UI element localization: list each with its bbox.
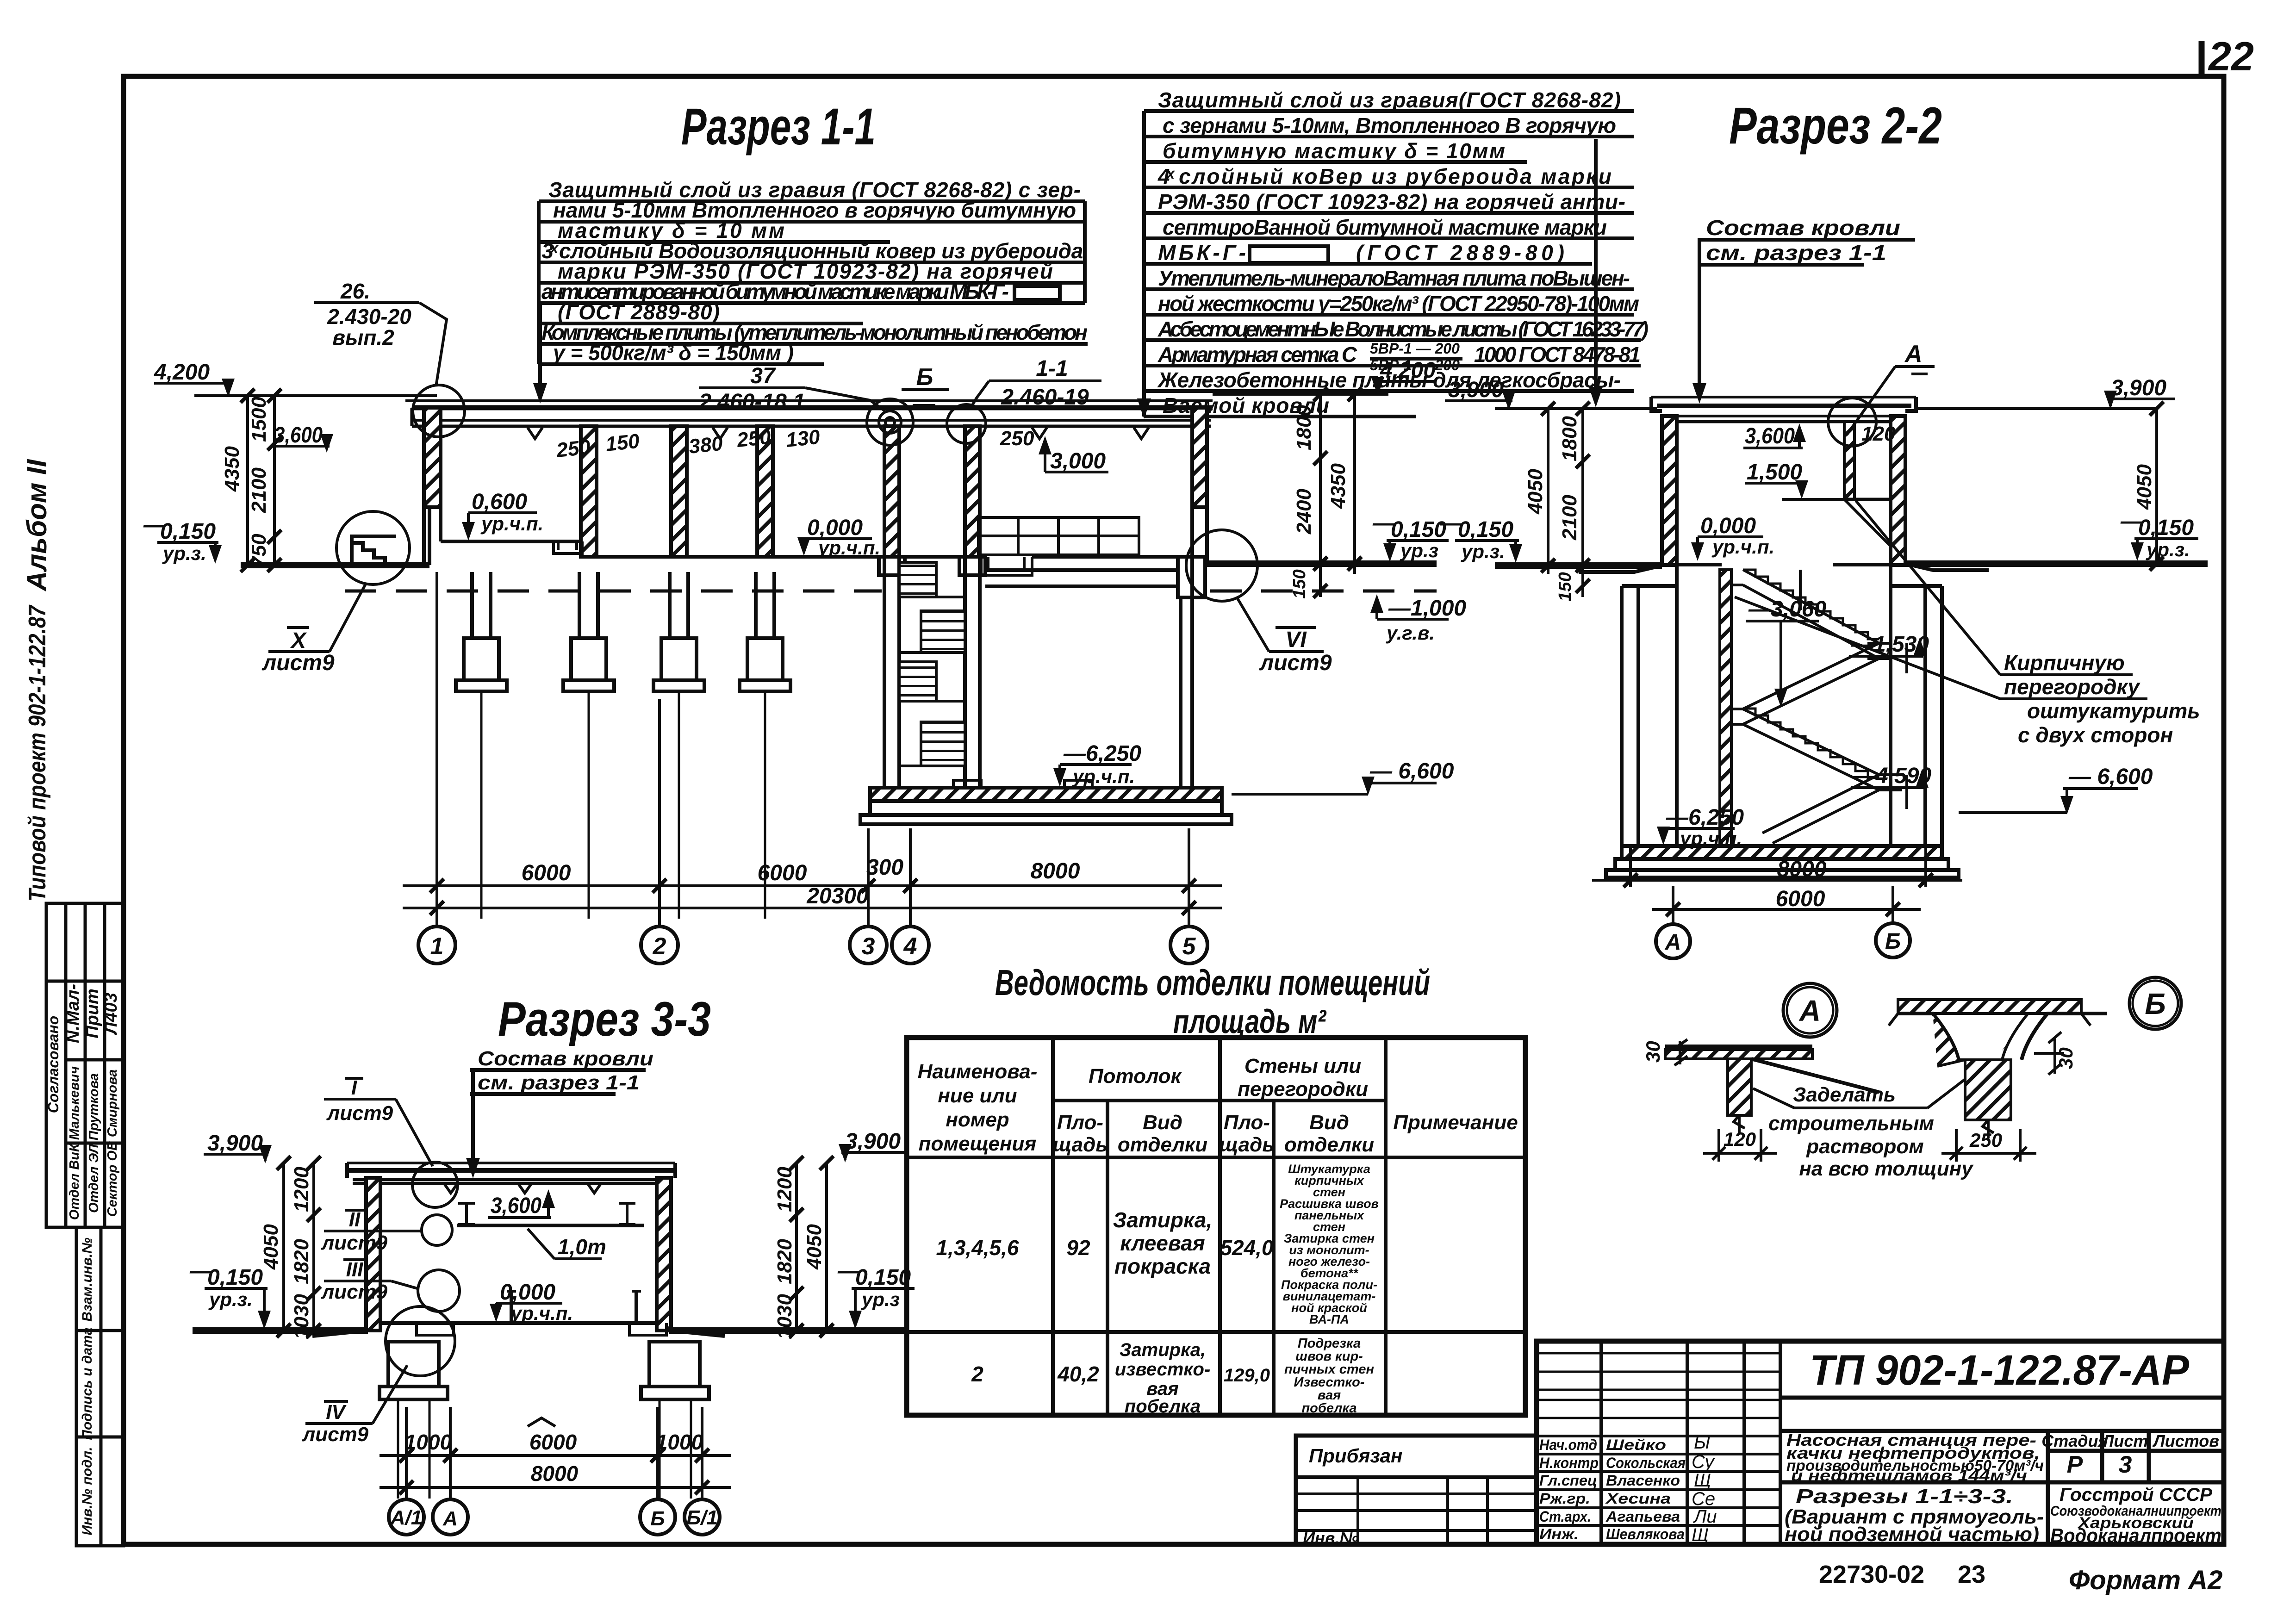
callout A — [1904, 341, 1923, 367]
svg-text:1030: 1030 — [290, 1294, 313, 1339]
pit foundation — [860, 780, 1232, 824]
svg-text:лист9: лист9 — [302, 1423, 369, 1446]
section 3-3 drawing — [193, 1162, 905, 1499]
svg-text:Ли: Ли — [1692, 1506, 1717, 1527]
svg-text:Рж.гр.: Рж.гр. — [1539, 1490, 1590, 1507]
svg-text:2: 2 — [653, 933, 666, 960]
svg-text:Л403: Л403 — [101, 993, 121, 1036]
svg-text:Власенко: Власенко — [1606, 1472, 1680, 1489]
detail circle X at entrance — [336, 511, 410, 585]
svg-text:2.460-18.1: 2.460-18.1 — [698, 390, 805, 414]
svg-text:1500: 1500 — [248, 397, 270, 442]
bottom margin texts — [1819, 1561, 2222, 1595]
svg-text:1030: 1030 — [773, 1294, 796, 1339]
level 3,900 right 3-3 — [845, 1129, 901, 1154]
svg-text:37: 37 — [750, 364, 776, 388]
svg-text:Б: Б — [2145, 987, 2165, 1020]
callout VI / лист9 — [1259, 628, 1332, 675]
svg-text:Ст.арх.: Ст.арх. — [1539, 1508, 1591, 1525]
left dim chain 2-2 — [1541, 402, 1590, 597]
svg-text:побелка: побелка — [1301, 1401, 1356, 1416]
pit outer walls — [1622, 565, 1942, 846]
svg-text:А: А — [442, 1507, 458, 1530]
table title — [995, 962, 1430, 1040]
svg-text:1200: 1200 — [773, 1167, 796, 1212]
svg-text:0,000: 0,000 — [1700, 514, 1756, 538]
svg-text:РЭМ-350 (ГОСТ 10923-82) на гор: РЭМ-350 (ГОСТ 10923-82) на горячей анти- — [1158, 190, 1625, 214]
svg-text:23: 23 — [1958, 1561, 1985, 1588]
svg-text:6000: 6000 — [1776, 887, 1825, 911]
detail circle B on roof — [867, 399, 913, 445]
level 4,200 right — [1380, 358, 1436, 383]
svg-text:2100: 2100 — [248, 467, 270, 513]
svg-text:Хесина: Хесина — [1605, 1490, 1671, 1507]
level 3,600 — [274, 423, 323, 448]
svg-text:5ВР-1 — 200: 5ВР-1 — 200 — [1370, 340, 1460, 357]
svg-text:Прибязан: Прибязан — [1309, 1445, 1402, 1467]
level -0,150 left — [143, 513, 216, 544]
svg-text:Сокольская: Сокольская — [1606, 1455, 1686, 1471]
120 label — [1861, 423, 1896, 445]
svg-text:0,000: 0,000 — [500, 1280, 555, 1305]
svg-text:0,150: 0,150 — [855, 1265, 911, 1290]
svg-text:3,600: 3,600 — [491, 1194, 541, 1218]
svg-text:120: 120 — [1861, 423, 1896, 445]
svg-text:Агапьева: Агапьева — [1605, 1508, 1680, 1525]
grid bubbles 3-3 — [389, 1499, 720, 1535]
svg-text:клеевая: клеевая — [1120, 1231, 1205, 1255]
level 4,200 left — [154, 360, 210, 385]
roof joint anchors — [444, 1184, 601, 1193]
level -0,150 right 3-3 — [837, 1259, 911, 1290]
svg-text:А: А — [1798, 994, 1821, 1027]
svg-text:Б: Б — [1885, 929, 1901, 954]
svg-text:N.Мал-: N.Мал- — [63, 984, 83, 1043]
svg-text:IV: IV — [326, 1401, 347, 1424]
svg-text:оштукатурить: оштукатурить — [2027, 699, 2200, 723]
roof spec note left (section 1-1) — [533, 178, 1088, 404]
level -0,150 right — [1372, 511, 1446, 542]
stair partition wall — [1720, 570, 1731, 846]
svg-text:—: — — [143, 513, 166, 537]
column on axis 2 area — [581, 426, 597, 557]
svg-text:250: 250 — [735, 425, 772, 452]
svg-text:септироВанной битумной мастик: септироВанной битумной мастике марки — [1163, 215, 1607, 239]
svg-text:Н.контр: Н.контр — [1539, 1455, 1599, 1471]
svg-text:8000: 8000 — [1777, 857, 1827, 882]
roof note 3-3 — [466, 1047, 653, 1178]
svg-text:1,0т: 1,0т — [558, 1235, 606, 1259]
svg-text:Листов: Листов — [2152, 1431, 2219, 1450]
svg-text:2100: 2100 — [1558, 495, 1581, 541]
partition 120 — [1844, 422, 1854, 499]
svg-text:26.: 26. — [340, 279, 370, 303]
svg-text:площадь м²: площадь м² — [1173, 1003, 1327, 1040]
svg-text:3: 3 — [862, 933, 875, 960]
svg-text:130: 130 — [785, 425, 821, 451]
right dim chain 3-3 — [790, 1156, 834, 1337]
svg-text:Типовой проект 902-1-122.87: Типовой проект 902-1-122.87 — [24, 604, 51, 902]
svg-text:250: 250 — [555, 435, 592, 462]
svg-text:у.г.в.: у.г.в. — [1386, 622, 1435, 644]
svg-text:Б/1: Б/1 — [686, 1506, 718, 1529]
right wall (grid 5) — [1192, 408, 1207, 507]
svg-text:Арматурная сетка С: Арматурная сетка С — [1157, 342, 1357, 367]
svg-text:0,150: 0,150 — [160, 519, 216, 544]
callout 37 / 2.460-18.1 — [698, 364, 805, 414]
left dimension chain — [241, 389, 281, 572]
svg-text:6000: 6000 — [529, 1430, 577, 1454]
bottom dims 3-3 — [380, 1407, 731, 1500]
svg-text:Шейко: Шейко — [1606, 1436, 1666, 1453]
svg-text:ной подземной частью): ной подземной частью) — [1785, 1523, 2039, 1546]
institute name — [2050, 1485, 2221, 1547]
floor channel pit — [981, 557, 1032, 575]
svg-text:1000 ГОСТ 8478-81: 1000 ГОСТ 8478-81 — [1474, 342, 1641, 367]
callout IV / лист9 — [302, 1401, 369, 1446]
detail B bubble — [2129, 977, 2181, 1029]
svg-text:и нефтешламов 144м³/ч: и нефтешламов 144м³/ч — [1791, 1467, 2027, 1485]
svg-text:лист9: лист9 — [1259, 651, 1332, 675]
floor 0.000 — [597, 555, 981, 559]
svg-text:Заделать: Заделать — [1793, 1083, 1896, 1106]
level 3,000 — [1050, 449, 1106, 473]
svg-text:1800: 1800 — [1558, 416, 1581, 461]
svg-text:Согласовано: Согласовано — [45, 1016, 62, 1113]
callout 1-1 / 2.460-19 — [1001, 356, 1089, 410]
grid bubbles 2-2 — [1656, 923, 1910, 958]
crane load label — [558, 1235, 606, 1259]
brick partition note — [2004, 651, 2200, 747]
floor 0.000 3-3 — [380, 1321, 657, 1325]
svg-text:0,150: 0,150 — [1391, 517, 1446, 542]
svg-text:ур.ч.п.: ур.ч.п. — [1072, 765, 1135, 787]
svg-text:Инв.№ подл.: Инв.№ подл. — [80, 1447, 95, 1535]
svg-text:вып.2: вып.2 — [332, 325, 394, 349]
svg-text:3,600: 3,600 — [1745, 424, 1795, 448]
svg-text:Щ: Щ — [1694, 1470, 1711, 1491]
detail circle 1-1 on roof — [947, 404, 986, 443]
left wall (grid 1) — [424, 408, 441, 507]
roof slab — [1651, 397, 1916, 422]
svg-text:отделки: отделки — [1284, 1133, 1374, 1156]
svg-text:Лист: Лист — [2101, 1431, 2148, 1450]
svg-text:4: 4 — [903, 933, 917, 960]
svg-text:с зернами 5-10мм, Втопленного: с зернами 5-10мм, Втопленного В горячую — [1163, 113, 1616, 137]
floor 0.000 in 2-2 — [1677, 563, 1722, 566]
detail circle A on partition top — [1828, 398, 1876, 446]
right wall 3-3 — [657, 1178, 671, 1331]
pit floor slab — [870, 788, 1222, 801]
detail circles on left wall — [412, 1162, 458, 1207]
svg-text:—6,250: —6,250 — [1063, 741, 1141, 766]
svg-text:ур.з.: ур.з. — [2146, 539, 2190, 560]
level -6,600 — [2068, 765, 2153, 789]
groundwater dashed line — [345, 590, 882, 593]
svg-text:—6,250: —6,250 — [1666, 805, 1744, 830]
svg-text:Щ: Щ — [1692, 1525, 1709, 1545]
svg-text:2400: 2400 — [1293, 489, 1315, 535]
left dim chain 3-3 — [277, 1156, 321, 1337]
floor 0.600 left room — [441, 540, 581, 543]
svg-text:Ы: Ы — [1694, 1432, 1710, 1453]
level 3,600 3-3 — [491, 1194, 541, 1218]
svg-text:—: — — [2120, 509, 2143, 534]
svg-text:1200: 1200 — [290, 1167, 313, 1212]
pit foundation 2-2 — [1606, 859, 1959, 877]
svg-text:I: I — [351, 1076, 357, 1099]
level -1,000 groundwater — [1388, 596, 1466, 621]
svg-text:4350: 4350 — [221, 446, 243, 492]
svg-text:ур.ч.п.: ур.ч.п. — [510, 1302, 573, 1324]
svg-text:(ГОСТ 2889-80): (ГОСТ 2889-80) — [1356, 241, 1564, 265]
svg-text:Пло-: Пло- — [1224, 1111, 1270, 1134]
floor channel left — [554, 541, 582, 553]
callout I / лист9 — [326, 1076, 393, 1125]
level 3,900 left 3-3 — [207, 1131, 263, 1156]
svg-text:Сектор ОВ Смирнова: Сектор ОВ Смирнова — [105, 1070, 120, 1217]
svg-text:с двух сторон: с двух сторон — [2018, 723, 2173, 747]
ground line left — [241, 562, 429, 568]
svg-text:Стадия: Стадия — [2041, 1431, 2108, 1450]
svg-text:Защитный слой из гравия(ГОСТ 8: Защитный слой из гравия(ГОСТ 8268-82) — [1158, 88, 1621, 112]
callout 26 / 2.430-20 — [327, 279, 411, 349]
floor posts — [511, 1291, 636, 1323]
left wall 2-2 — [1662, 416, 1677, 565]
level 0,000 — [807, 516, 863, 540]
equipment blocks on floor — [978, 517, 1139, 555]
svg-text:380: 380 — [688, 432, 724, 458]
stair shaft wall (grid 4) — [965, 426, 980, 557]
name rows — [1537, 1436, 1780, 1525]
right dimension chain — [1313, 387, 1362, 598]
callout Б — [916, 364, 933, 391]
role labels — [1539, 1436, 1686, 1542]
svg-text:1: 1 — [430, 933, 444, 960]
project name — [1786, 1430, 2044, 1485]
svg-text:—: — — [1372, 511, 1395, 535]
svg-text:покраска: покраска — [1114, 1254, 1211, 1278]
level -6,250 pit floor — [1063, 741, 1141, 766]
svg-text:2: 2 — [971, 1362, 983, 1386]
svg-text:Пло-: Пло- — [1057, 1111, 1103, 1134]
right part dividers — [1780, 1398, 2224, 1544]
bottom dimension chains — [403, 572, 1222, 927]
level 0,000 3-3 — [500, 1280, 555, 1305]
svg-text:129,0: 129,0 — [1224, 1365, 1270, 1386]
section 1-1 labels — [143, 279, 1466, 964]
title block left extension (attachment box) — [1296, 1436, 1537, 1548]
svg-text:Ведомость отделки помещений: Ведомость отделки помещений — [995, 962, 1430, 1003]
svg-text:Разрезы 1-1÷3-3.: Разрезы 1-1÷3-3. — [1796, 1485, 2013, 1508]
svg-text:Затирка,: Затирка, — [1120, 1340, 1206, 1360]
callout X / лист9 — [261, 628, 335, 675]
detail B drawing — [1889, 1000, 2107, 1138]
svg-text:АсбестоцементнЫе Волнистые лис: АсбестоцементнЫе Волнистые листы (ГОСТ 1… — [1157, 317, 1649, 341]
svg-text:Разрез 3-3: Разрез 3-3 — [498, 992, 711, 1046]
svg-text:ур.ч.п.: ур.ч.п. — [817, 537, 880, 559]
crane beam — [457, 1203, 644, 1225]
svg-text:92: 92 — [1066, 1236, 1090, 1260]
level -6,250 — [1666, 805, 1744, 830]
svg-text:300: 300 — [866, 855, 903, 880]
svg-text:0,150: 0,150 — [1458, 517, 1513, 542]
svg-text:2.460-19: 2.460-19 — [1001, 385, 1089, 410]
svg-text:30: 30 — [2055, 1047, 2077, 1069]
svg-text:Отдел ВиК Малькевич: Отдел ВиК Малькевич — [67, 1066, 82, 1220]
svg-text:0,150: 0,150 — [207, 1265, 263, 1290]
svg-text:—: — — [837, 1259, 860, 1283]
svg-text:1000: 1000 — [404, 1430, 452, 1454]
svg-text:150: 150 — [1290, 569, 1309, 598]
page number 22 — [2202, 33, 2254, 79]
svg-text:Нач.отд: Нач.отд — [1539, 1436, 1597, 1453]
detail B dims — [1941, 1032, 2064, 1162]
svg-text:Утеплитель-минералоВатная пли: Утеплитель-минералоВатная плита поВышен- — [1158, 266, 1630, 290]
svg-text:щадь: щадь — [1220, 1133, 1275, 1156]
svg-text:Разрез 2-2: Разрез 2-2 — [1729, 97, 1942, 155]
section 3-3 labels — [189, 1076, 915, 1535]
svg-text:лист9: лист9 — [326, 1102, 393, 1125]
svg-text:524,0: 524,0 — [1220, 1236, 1274, 1260]
svg-text:— 6,600: — 6,600 — [1369, 759, 1454, 784]
svg-text:перегородку: перегородку — [2004, 675, 2140, 699]
grid bubbles — [418, 927, 1207, 964]
svg-text:Вид: Вид — [1309, 1111, 1349, 1134]
svg-text:номер: номер — [946, 1108, 1009, 1131]
entrance steps (detail X) — [352, 536, 396, 565]
svg-text:ур.з.: ур.з. — [1461, 541, 1505, 562]
svg-text:3: 3 — [2119, 1451, 2132, 1478]
stair flights in pit (plan bands) — [899, 562, 965, 766]
stair flights zigzag — [1731, 570, 1907, 843]
svg-text:250: 250 — [1000, 427, 1034, 450]
svg-text:Р: Р — [2067, 1451, 2083, 1478]
svg-text:250: 250 — [1969, 1129, 2002, 1151]
svg-text:ур.з.: ур.з. — [208, 1288, 253, 1310]
roof spec note middle (section 1-1) — [1137, 88, 1649, 419]
svg-text:1,3,4,5,6: 1,3,4,5,6 — [936, 1236, 1019, 1260]
svg-text:МБК-Г-: МБК-Г- — [1158, 241, 1246, 265]
svg-text:Инв.№: Инв.№ — [1303, 1529, 1359, 1548]
left wall 3-3 — [366, 1178, 380, 1331]
level -4,590 — [1853, 764, 1931, 788]
svg-text:ной жесткости γ=250кг/м³ (ГОСТ: ной жесткости γ=250кг/м³ (ГОСТ 22950-78)… — [1158, 292, 1639, 316]
svg-text:3,000: 3,000 — [1050, 449, 1106, 473]
right dim chain 2-2 — [2150, 402, 2164, 571]
svg-text:А/1: А/1 — [390, 1506, 422, 1529]
svg-text:— 6,600: — 6,600 — [2068, 765, 2153, 789]
svg-text:побелка: побелка — [1125, 1396, 1201, 1417]
stage cells — [2041, 1431, 2219, 1450]
svg-text:Отдел ЭЛ Пруткова: Отдел ЭЛ Пруткова — [87, 1073, 101, 1213]
svg-text:3,900: 3,900 — [2111, 376, 2166, 400]
svg-text:1800: 1800 — [1293, 405, 1315, 450]
level -0,150 left — [1440, 511, 1513, 542]
svg-text:Су: Су — [1692, 1452, 1715, 1472]
roof slab 3-3 — [347, 1163, 675, 1183]
level 0,600 — [472, 490, 527, 514]
section 2-2 labels — [1440, 341, 2200, 958]
level -0,150 right — [2120, 509, 2194, 540]
svg-text:4050: 4050 — [803, 1224, 826, 1270]
svg-text:ние или: ние или — [938, 1084, 1017, 1107]
svg-text:лист9: лист9 — [321, 1231, 388, 1254]
svg-text:Гл.спец: Гл.спец — [1539, 1472, 1597, 1489]
svg-text:Затирка,: Затирка, — [1113, 1208, 1212, 1232]
level -3,060 — [1748, 597, 1826, 622]
svg-text:—: — — [189, 1259, 212, 1283]
svg-text:4050: 4050 — [1524, 469, 1547, 515]
svg-text:6000: 6000 — [522, 861, 571, 885]
svg-text:Водоканалпроект: Водоканалпроект — [2050, 1524, 2221, 1547]
svg-text:—: — — [1440, 511, 1463, 535]
table texts — [918, 1055, 1518, 1417]
svg-text:ТП 902-1-122.87-АР: ТП 902-1-122.87-АР — [1810, 1347, 2190, 1394]
svg-text:750: 750 — [248, 534, 270, 568]
svg-text:1-1: 1-1 — [1036, 356, 1068, 381]
column — [757, 426, 773, 557]
svg-text:битумную мастику δ = 10мм: битумную мастику δ = 10мм — [1163, 139, 1505, 163]
svg-text:20300: 20300 — [806, 884, 869, 908]
level 3,600 inside — [1745, 424, 1795, 448]
svg-text:раствором: раствором — [1806, 1135, 1924, 1158]
ground line right — [1207, 560, 1437, 567]
approval table (rotated) — [46, 903, 124, 1227]
column pedestal footings and piles — [456, 572, 790, 919]
dim 1,500 — [1747, 460, 1802, 485]
footings 3-3 — [380, 1342, 709, 1499]
ground line 3-3 — [193, 1327, 368, 1334]
svg-text:Стены или: Стены или — [1244, 1055, 1361, 1077]
svg-text:4,200: 4,200 — [1380, 358, 1436, 383]
svg-text:3,900: 3,900 — [1448, 378, 1504, 402]
svg-text:120: 120 — [1724, 1128, 1756, 1150]
svg-text:перегородки: перегородки — [1238, 1078, 1368, 1101]
bottom dims 2-2 — [1592, 847, 1962, 924]
svg-text:4,200: 4,200 — [154, 360, 210, 385]
svg-text:Наименова-: Наименова- — [918, 1060, 1038, 1083]
ground lines 2-2 — [1495, 562, 1662, 569]
roof note 2-2 — [1692, 216, 1915, 404]
level -1,530 — [1851, 632, 1929, 657]
svg-text:X: X — [290, 628, 307, 653]
svg-text:лист9: лист9 — [261, 651, 335, 675]
level -0,150 left 3-3 — [189, 1259, 263, 1290]
sheet name — [1785, 1485, 2044, 1546]
svg-text:Госстрой СССР: Госстрой СССР — [2060, 1485, 2212, 1505]
svg-text:А: А — [1665, 930, 1681, 955]
svg-text:Прum: Прum — [83, 989, 102, 1038]
svg-text:ур.ч.п.: ур.ч.п. — [1679, 827, 1742, 849]
svg-text:4350: 4350 — [1327, 463, 1350, 509]
svg-text:6000: 6000 — [758, 861, 807, 885]
thin rows upper left — [1537, 1353, 1780, 1418]
svg-text:150: 150 — [1556, 572, 1575, 601]
left margin vertical labels — [21, 459, 124, 1546]
svg-text:Инж.: Инж. — [1539, 1526, 1579, 1542]
svg-text:помещения: помещения — [919, 1132, 1037, 1155]
svg-text:VI: VI — [1285, 628, 1307, 652]
svg-text:А: А — [1904, 341, 1923, 367]
detail circle VI right wall — [1186, 530, 1257, 601]
leader arrow into drawing — [1142, 137, 1146, 407]
svg-text:3,900: 3,900 — [845, 1129, 901, 1154]
wall width labels — [555, 425, 1034, 462]
vertical dividers left part — [1601, 1341, 1780, 1544]
svg-text:3,600: 3,600 — [274, 423, 323, 448]
detail A drawing: slab and partition — [1665, 1046, 1879, 1134]
